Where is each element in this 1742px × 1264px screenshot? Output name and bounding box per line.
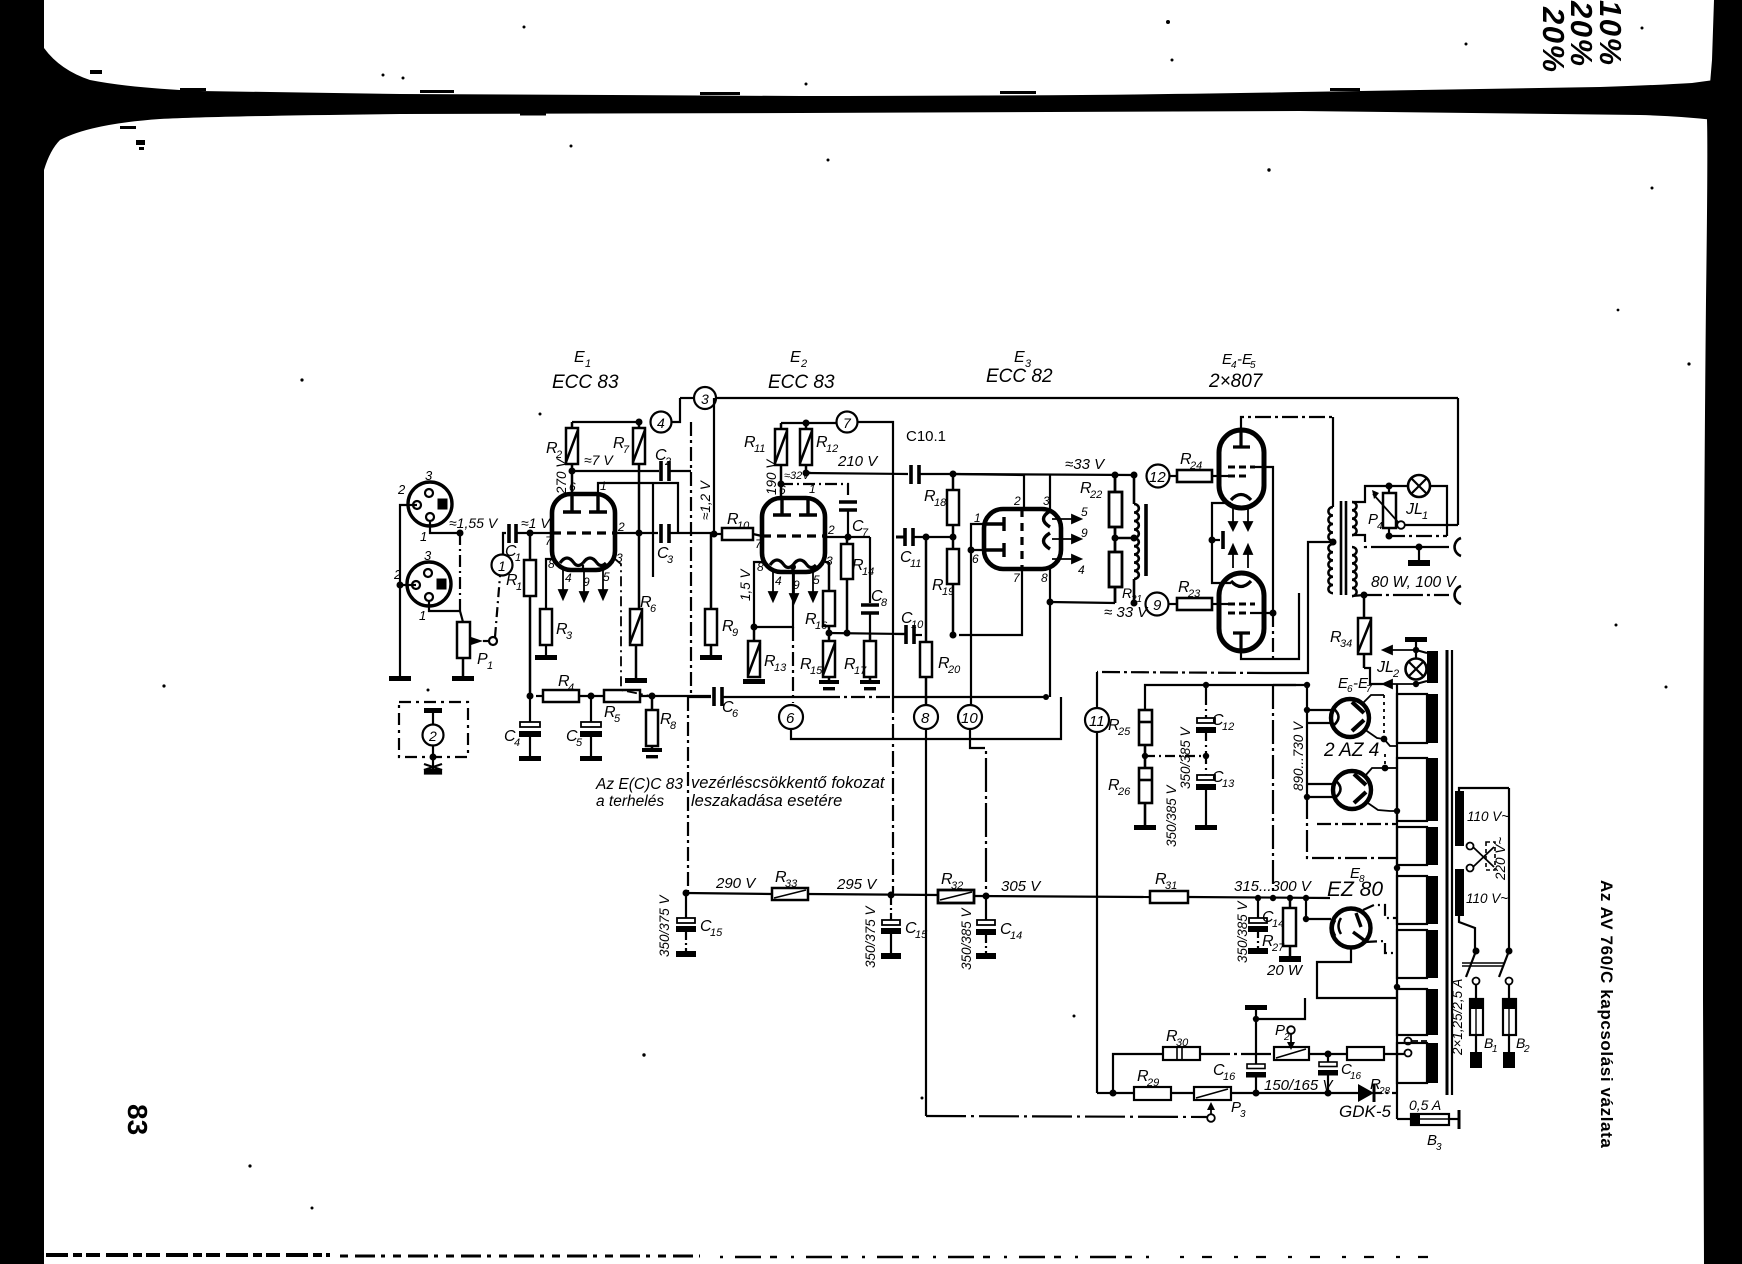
svg-text:18: 18 [934,497,947,509]
R30 to P2 wire [1200,1053,1274,1055]
output terminal arc upper [1455,538,1461,556]
screen bypass cap between tubes [1209,537,1216,544]
capacitor C4 electrolytic [519,696,541,756]
V2 grid dashes [1228,604,1255,613]
capacitor C15a electrolytic [676,893,696,951]
resistor R2 with diagonal [566,422,578,494]
svg-text:11: 11 [910,558,921,570]
svg-text:a terhelés: a terhelés [596,793,664,810]
resistor R8 [646,696,658,752]
HT column [1273,684,1307,686]
svg-text:350/375 V: 350/375 V [863,904,878,968]
svg-text:16: 16 [1223,1071,1236,1083]
svg-text:80 W, 100 V: 80 W, 100 V [1371,574,1457,591]
svg-text:1: 1 [420,529,427,544]
svg-text:110 V~: 110 V~ [1467,809,1509,824]
svg-text:6: 6 [972,552,979,566]
svg-text:3: 3 [424,548,432,563]
EZ80 cathode return [1317,948,1397,998]
primary winding black bars [1455,791,1464,916]
2AZ4 t2 filament wire [1304,794,1310,800]
svg-text:305 V: 305 V [1001,878,1042,895]
svg-text:8: 8 [670,720,677,732]
svg-text:Az E(C)C 83: Az E(C)C 83 [595,776,683,793]
resistor R14 [841,537,853,633]
primary right feeder down to switch [1508,788,1510,949]
dash-dot from R11 bottom to C7 [781,484,848,498]
capacitor C2 [661,461,669,481]
V1 grid wire from R24 [1219,475,1228,477]
resistor R17 [864,634,876,682]
2AZ4 t2 anode wires [1365,768,1384,776]
svg-text:16: 16 [815,620,828,632]
dash-dot column down to 290V rail [686,697,688,893]
R30 left wire down to R29 node [1113,1054,1163,1093]
svg-text:150/165 V: 150/165 V [1264,1077,1334,1094]
svg-text:11: 11 [754,443,765,455]
top wire E1 to node4 [572,421,639,423]
anode wire R2 bottom to C2 [572,470,659,472]
capacitor C10 [906,625,914,644]
R34 bottom to JL2 lower line [1364,668,1383,684]
capacitor C8 [861,605,879,613]
V2 plate [1233,633,1250,651]
svg-text:Az AV 760/C kapcsolási vázlata: Az AV 760/C kapcsolási vázlata [1597,880,1616,1148]
V1 heater arrows down [1229,508,1252,530]
svg-text:890...730 V: 890...730 V [1291,720,1306,791]
grid column continues down to bus [1272,613,1274,659]
node 12 circle [1147,465,1170,488]
svg-text:350/385 V: 350/385 V [1164,783,1179,847]
E1 pin8 wire to R3 [546,559,552,609]
OT core bars [1340,501,1343,595]
wire node1 up to C1 [503,533,506,554]
C6 line to node6 and beyond [722,696,826,698]
100V line to lower terminal [1361,592,1368,599]
choke core bar [1144,504,1148,576]
svg-text:31: 31 [1165,880,1177,892]
rail wire to 305V and R31 [974,896,1150,897]
svg-text:≈33 V: ≈33 V [1065,456,1106,473]
svg-text:5: 5 [1081,505,1088,519]
node 10 circle [958,705,982,729]
210V rail from R12 bottom to C9 and on [803,470,810,477]
resistor R3 [540,609,552,645]
svg-text:290 V: 290 V [715,875,757,892]
capacitor C11 [905,528,913,546]
svg-text:≈1 V: ≈1 V [521,515,551,531]
svg-text:24: 24 [1189,460,1202,472]
E3 pin7 wire down to C10 line [959,569,1022,635]
svg-text:E: E [1014,349,1025,366]
svg-text:83: 83 [122,1104,153,1135]
wire C2 right to 1,2V column [669,470,691,472]
svg-text:C10.1: C10.1 [906,428,946,445]
svg-text:0,5 A: 0,5 A [1409,1097,1441,1113]
secondary top wire to JL1 line [1352,486,1389,502]
svg-text:110 V~: 110 V~ [1466,891,1508,906]
svg-text:5: 5 [813,573,820,587]
svg-text:3: 3 [667,554,674,566]
lamp JL1 [1408,475,1430,497]
C6 left link to dash-dot column [688,696,711,698]
svg-text:2: 2 [1013,494,1021,508]
output tube V2 807 envelope [1219,573,1264,651]
svg-text:10: 10 [911,619,924,631]
svg-text:350/385 V: 350/385 V [1235,899,1250,963]
svg-text:350/385 V: 350/385 V [1178,725,1193,789]
resistor R21 [1109,552,1122,603]
node 9 circle [1146,593,1169,616]
output terminal arc lower [1455,586,1461,604]
svg-text:20 W: 20 W [1266,962,1304,979]
R22/R21 midpoint link to choke tap [1112,535,1119,542]
capacitor C5 electrolytic [580,696,602,756]
V2 plate wire down right up to OT [1241,593,1299,659]
svg-text:4: 4 [1078,563,1085,577]
rectifier 2AZ4 tube 2 [1333,771,1371,809]
rail wire to 295V [808,894,938,895]
svg-text:leszakadása esetére: leszakadása esetére [691,792,842,810]
svg-text:10: 10 [737,520,750,532]
anode column link [1384,754,1386,768]
potentiometer P2 [1274,1047,1309,1060]
wire node11 down to R29 line [1096,732,1098,1093]
svg-text:8: 8 [1041,571,1048,585]
R28 to terminal circles [1384,1053,1404,1055]
svg-text:32: 32 [951,880,963,892]
E2 heater arrows [769,572,817,603]
svg-text:30: 30 [1176,1037,1189,1049]
svg-text:GDK-5: GDK-5 [1339,1102,1392,1121]
scan border top band [44,48,1714,170]
node 6 circle [779,705,803,729]
E1 pin3 grid2 dash-dot down [615,559,650,696]
E1 anode plates [563,494,607,512]
svg-text:5: 5 [603,570,610,584]
output tube V1 807 envelope [1219,430,1264,508]
resistor R31 [1150,891,1188,903]
svg-text:2: 2 [397,482,406,497]
resistor R19 [947,549,959,635]
svg-text:3: 3 [1436,1142,1442,1153]
rail link to EZ80 filament [1303,916,1309,922]
svg-text:3: 3 [566,630,573,642]
E1 grid out pin2 wire to C3 [615,532,658,534]
svg-text:5: 5 [614,713,621,725]
resistor R10 horizontal [722,528,753,540]
svg-text:7: 7 [623,444,630,456]
svg-text:34: 34 [1340,638,1352,650]
svg-text:1: 1 [585,358,591,370]
svg-text:2: 2 [428,728,437,744]
resistor R33 with diagonal [772,888,808,900]
OT secondary winding lower [1352,547,1357,596]
svg-text:20%: 20% [1536,6,1571,74]
OT primary winding upper [1328,507,1333,541]
resistor R30 segmented [1163,1047,1200,1060]
svg-text:26: 26 [1117,786,1131,798]
P2 top terminal [1287,1026,1295,1034]
wire 1,55V node down to P1 (dash-dot) [459,533,461,613]
resistor R34 with diagonal [1358,595,1371,668]
capacitor C7 [839,502,857,510]
svg-text:14: 14 [862,566,874,578]
svg-text:4: 4 [565,571,572,585]
V1 grid out right to column [1250,467,1273,613]
E3 pin2 wire up to rail [1023,475,1025,509]
svg-text:4: 4 [514,737,520,749]
wire P4 wiper to bus column [1405,524,1458,526]
svg-text:6: 6 [650,603,657,615]
E3 plates left [984,517,1004,557]
resistor R6 with diagonal [630,609,642,678]
bottom line to P3 terminal [926,1116,1207,1117]
chassis ground star below box [424,762,442,774]
V1 plate wire up and right (dash-dot) [1241,417,1333,430]
R11 bottom dot [778,481,785,488]
svg-text:JL: JL [1376,659,1394,676]
HT wire to winding mid [1307,797,1397,858]
ground below left column [389,676,411,681]
triode E2 envelope [762,498,825,572]
E3 pin8 wire down to 33V lower node [1049,569,1051,602]
svg-text:4: 4 [568,682,574,694]
svg-text:1: 1 [498,558,506,574]
node 11 circle [1085,708,1109,732]
capacitor C13 electrolytic [1196,756,1216,825]
mic connector K2 [400,562,460,611]
JL2 winding stubs [1416,650,1427,653]
svg-text:6: 6 [732,708,739,720]
wire connector1 pin2 down left column [400,505,417,676]
svg-text:7: 7 [1366,684,1372,695]
capacitor C9 on 210V line [911,465,919,484]
switch feeder wire [1459,916,1475,949]
svg-text:27: 27 [1271,942,1285,954]
svg-text:220 V~: 220 V~ [1493,837,1508,881]
P3 right to GDK5 [1231,1092,1358,1094]
svg-text:350/385 V: 350/385 V [959,906,974,970]
P2 to R28 [1309,1053,1347,1055]
node 7 circle [837,412,858,433]
rail wire left section [686,893,772,894]
secondary winding black bars [1427,651,1438,1083]
svg-text:E: E [790,349,801,366]
resistor R9 [705,534,717,655]
svg-text:JL: JL [1405,501,1423,518]
svg-text:2: 2 [664,456,671,468]
P3 wiper bottom terminal [1207,1102,1215,1110]
wire node7 right then down column [858,422,893,697]
svg-text:2×807: 2×807 [1208,371,1264,392]
E3 output arrows right [1052,515,1081,563]
svg-text:12: 12 [826,443,838,455]
capacitor C6 [714,687,722,706]
svg-text:1: 1 [419,608,426,623]
resistor R32 with diagonal [938,890,974,903]
svg-text:1: 1 [1422,510,1428,522]
svg-text:7: 7 [843,415,852,431]
svg-text:EZ 80: EZ 80 [1327,878,1383,901]
diode GDK-5 [1358,1084,1374,1102]
EZ80 anode wires to winding [1363,905,1397,918]
E3 cathode arcs right [1044,511,1051,549]
V2 heater arrows up [1229,545,1252,568]
svg-text:16: 16 [1350,1071,1362,1082]
svg-text:190 V: 190 V [764,458,779,495]
rail junction dots [1255,895,1261,901]
primary top wire [1459,788,1509,791]
V1 grid dashes [1228,467,1255,476]
lamp JL2 [1406,659,1427,680]
P1 wiper arrow and terminal [471,637,483,645]
resistor R27 [1283,898,1296,956]
dash-dot column node4 down to C6 line [690,422,692,697]
svg-text:9: 9 [1081,526,1088,540]
triode E1 envelope [552,494,615,570]
potentiometer P4 [1383,493,1396,528]
svg-text:ECC 83: ECC 83 [552,372,619,393]
wire top to R25 C12 [1145,685,1206,710]
R25/R26 junction and dashed link [1142,753,1148,759]
node dot R2 bottom [569,468,576,475]
capacitor C14 electrolytic [976,896,996,953]
svg-text:4: 4 [1377,521,1383,532]
E2 grid dashed line [762,534,825,537]
resistor R1 [524,533,536,696]
svg-text:28: 28 [1378,1086,1391,1097]
Hungarian note text [595,774,886,810]
svg-text:≈ 33 V: ≈ 33 V [1104,604,1149,621]
svg-text:5: 5 [1250,360,1256,371]
wire R4 to R5 [579,695,604,697]
svg-text:≈1,2 V: ≈1,2 V [698,479,713,520]
svg-text:23: 23 [1187,588,1201,600]
capacitor C12 electrolytic [1196,697,1216,756]
svg-text:15: 15 [915,929,928,941]
wire P1 wiper up to node 1 (dash-dot) [495,576,500,637]
wire 210V/33V rail to choke top [950,471,957,478]
wire ground node down through C16a [1255,1019,1257,1064]
wire node8 down to bottom line [925,729,927,1116]
svg-text:350/375 V: 350/375 V [657,893,672,957]
ground above C16a [1245,1005,1267,1010]
svg-text:8: 8 [881,597,888,609]
scan border left bar [0,0,44,1264]
svg-text:17: 17 [854,665,867,677]
wire R5 to C6 [640,695,711,697]
capacitor C16a [1246,1064,1266,1093]
rectifier EZ80 tube [1332,909,1371,948]
potentiometer P1 [457,622,470,676]
capacitor C3 [661,524,669,543]
svg-text:15: 15 [710,927,723,939]
resistor R18 [947,474,959,549]
resistor R11 with diagonal [775,423,787,498]
svg-text:12: 12 [1149,469,1166,486]
wire pin6 node down to node10 [970,550,972,705]
svg-text:29: 29 [1146,1077,1159,1089]
wire grid line down to C8 [869,537,871,603]
E3 pin1 pin6 left wires [971,524,984,550]
node 4 circle [651,412,672,433]
wire C1 to tube pin7 with node dot [516,532,552,534]
svg-text:1: 1 [1492,1044,1498,1055]
V1 plate [1233,430,1250,447]
svg-text:13: 13 [1222,778,1235,790]
bus from node3 to output section [680,397,694,399]
switch to fuse terminals [1473,978,1480,985]
svg-text:9: 9 [732,627,738,639]
svg-text:2: 2 [1392,668,1399,680]
R15/R16 junction dot [826,630,833,637]
svg-text:12: 12 [1222,721,1234,733]
E3 grid dashed vertical [1020,509,1023,569]
svg-text:19: 19 [942,586,954,598]
svg-text:9: 9 [1153,597,1162,614]
svg-text:2 AZ 4: 2 AZ 4 [1323,740,1379,761]
svg-text:8: 8 [921,710,930,727]
choke winding coils [1134,475,1139,603]
svg-text:3: 3 [1240,1109,1246,1120]
scan border right bar [1703,0,1742,1264]
E2 grid wire pin2 right [825,536,870,538]
wire ground node right to EZ80 return [1256,998,1305,1019]
potentiometer P3 [1194,1087,1231,1100]
resistor R16 [823,562,835,641]
svg-text:3: 3 [425,468,433,483]
E1 cathode arcs [560,558,606,566]
svg-text:270 V: 270 V [554,457,569,495]
rail wire to 315..300V [1188,897,1330,898]
fuse B1 [1475,985,1477,999]
V2 cathode arc top [1231,581,1251,587]
fuse B2 [1508,985,1510,999]
resistor R28 [1347,1047,1384,1060]
capacitor C15b electrolytic [881,895,901,953]
svg-text:1: 1 [515,552,521,564]
mic connector K1 [408,482,460,533]
resistor R4 horizontal [543,690,579,702]
transformer core lines [1446,650,1449,1095]
890...730V column down to rail [1272,685,1274,898]
resistor R15 with diagonal [823,641,835,682]
mains switch contacts [1473,948,1480,955]
junction wire R16 R14 C8 C10 line [829,633,905,634]
svg-text:1,5 V: 1,5 V [738,567,753,601]
wire node6 down then right [791,697,1061,739]
tap switch crossover [1467,843,1474,850]
wire cathode to R13 node and down to node6 [754,567,793,627]
node 1 circle [492,555,513,576]
wire node3 down to R10 [713,398,715,534]
cathode link column left of tubes [1212,503,1231,583]
E2 cathode junction dot [790,564,796,570]
wire R1/R4 junction [527,693,534,700]
dashed box aux input node 2 [399,702,468,757]
resistor R7 with diagonal [633,422,645,609]
resistor R12 with diagonal [800,423,812,473]
svg-text:≈1,55 V: ≈1,55 V [449,515,499,531]
ground above JL2 [1405,637,1427,642]
svg-text:ECC 82: ECC 82 [986,366,1053,387]
svg-text:15: 15 [810,665,823,677]
resistor R26 segmented [1139,768,1152,825]
ground below P1 [452,676,474,681]
rail junction 290V [683,890,690,897]
secondary winding boxes [1397,694,1427,1083]
